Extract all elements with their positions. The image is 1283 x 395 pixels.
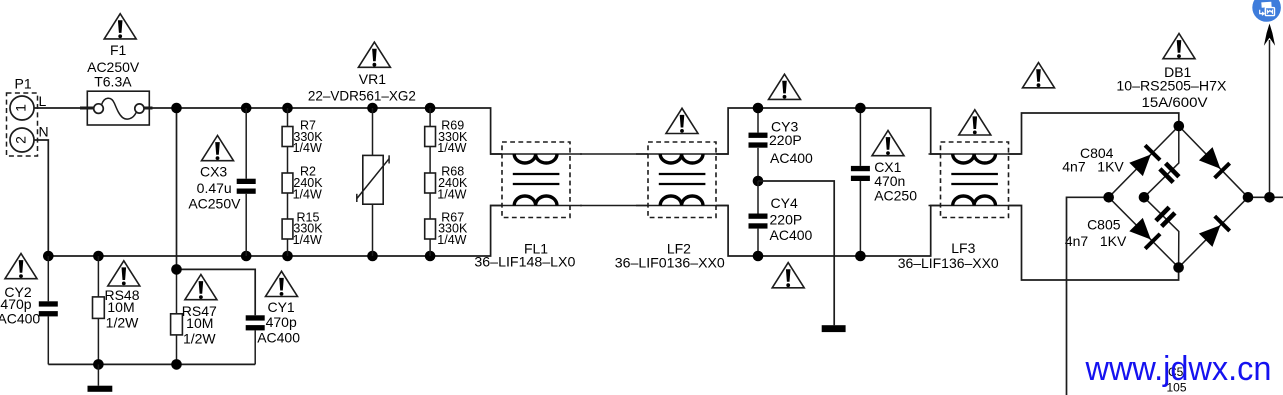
resistor RS48 [93, 256, 140, 364]
junction N rail R15 [282, 251, 293, 262]
junction gnd rail RS47 [171, 359, 182, 370]
svg-text:AC250V: AC250V [188, 196, 241, 212]
junction top rail R69 [425, 103, 436, 114]
connector P1 [7, 76, 49, 157]
junction N rail x48 [43, 251, 54, 262]
wire DC+ up to arrow [1269, 40, 1271, 197]
ground (left) [88, 364, 113, 391]
ground (middle) [822, 325, 846, 332]
wire midpoint to ground [758, 181, 834, 325]
svg-text:1/4W: 1/4W [293, 188, 322, 202]
capacitor CY3 [749, 108, 814, 181]
wire left vertex to bottom edge [1067, 197, 1109, 395]
junction N rail CX3 [241, 251, 252, 262]
resistor R69 [425, 108, 468, 155]
svg-text:L: L [39, 93, 47, 109]
junction top rail VR1 [367, 103, 378, 114]
svg-text:10–RS2505–H7X: 10–RS2505–H7X [1116, 78, 1227, 94]
diode DB1 lower-right [1198, 215, 1231, 248]
svg-text:36–LIF0136–XX0: 36–LIF0136–XX0 [615, 255, 725, 271]
junction sub-loop x176 [171, 264, 182, 275]
varistor VR1 [308, 71, 416, 256]
svg-text:0.47u: 0.47u [197, 180, 232, 196]
svg-text:LF3: LF3 [951, 240, 975, 256]
svg-text:1/4W: 1/4W [293, 233, 322, 247]
svg-text:10M: 10M [107, 299, 134, 315]
svg-text:4n7 1KV: 4n7 1KV [1065, 233, 1127, 249]
wire ground rail (bottom left) [48, 363, 255, 365]
resistor RS47 [171, 269, 217, 364]
diode DB1 lower-left [1129, 217, 1162, 250]
svg-text:1/2W: 1/2W [183, 331, 216, 347]
junction bridge center node [1139, 192, 1150, 203]
warning triangle (LF3) [959, 110, 991, 135]
resistor R2 [282, 147, 323, 202]
junction bridge top vertex [1174, 121, 1185, 132]
svg-text:22–VDR561–XG2: 22–VDR561–XG2 [308, 88, 416, 104]
junction N rail R67 [425, 251, 436, 262]
svg-text:T6.3A: T6.3A [94, 73, 132, 89]
warning triangle (CY4) [772, 263, 804, 288]
warning triangle (F1) [104, 14, 136, 39]
svg-text:CX3: CX3 [200, 164, 227, 180]
junction bridge left vertex [1103, 192, 1114, 203]
junction CY3 top [753, 103, 764, 114]
wire LF2 to CY3 section (lower) [716, 206, 941, 257]
warning triangle (RS48) [108, 261, 140, 286]
svg-text:1/4W: 1/4W [437, 233, 466, 247]
diode DB1 upper-right [1198, 146, 1231, 179]
resistor R7 [282, 108, 323, 155]
junction gnd rail RS48 [93, 359, 104, 370]
wire N rail: left section [48, 206, 502, 257]
wire L: P1 pin1 to fuse F1 [34, 107, 94, 109]
capacitor CX1 [851, 108, 917, 256]
svg-text:1/2W: 1/2W [106, 315, 139, 331]
warning triangle (CY3) [769, 74, 801, 99]
resistor R15 [282, 193, 323, 256]
junction bridge bottom vertex [1173, 262, 1184, 273]
warning triangle (CX3) [202, 136, 234, 161]
wire right vertex to right edge [1248, 196, 1283, 198]
svg-text:220P: 220P [769, 132, 802, 148]
junction CX1 top [855, 103, 866, 114]
svg-text:www.jdwx.cn: www.jdwx.cn [1085, 350, 1272, 388]
junction N rail VR1 [367, 251, 378, 262]
arrow off-page (DC+) [1264, 24, 1275, 46]
warning triangle (VR1) [358, 42, 390, 67]
svg-text:C805: C805 [1087, 217, 1121, 233]
capacitor CX3 [188, 108, 255, 256]
svg-text:AC250: AC250 [874, 187, 917, 203]
capacitor C804 [1062, 126, 1180, 197]
browser overlay icon (blue circle) [1252, 0, 1281, 22]
warning triangle (RS47) [185, 275, 217, 300]
svg-text:AC400: AC400 [0, 311, 40, 327]
junction bridge right vertex [1243, 192, 1254, 203]
svg-text:AC400: AC400 [257, 330, 300, 346]
capacitor C805 [1065, 197, 1179, 267]
warning triangle (CY2) [5, 254, 37, 279]
junction CY4 bottom [753, 251, 764, 262]
warning triangle (left of DB1) [1023, 63, 1055, 88]
junction CX1 bottom [855, 251, 866, 262]
diode DB1 upper-left [1129, 144, 1162, 177]
resistor R68 [425, 147, 468, 202]
svg-text:10M: 10M [186, 315, 213, 331]
wire sub-loop rail [177, 269, 256, 315]
svg-text:P1: P1 [15, 76, 32, 92]
svg-text:AC400: AC400 [770, 227, 813, 243]
warning triangle (LF2) [666, 108, 698, 133]
junction top rail R7 [282, 103, 293, 114]
wire top rail: fuse to FL1 [144, 108, 502, 154]
svg-text:1/4W: 1/4W [437, 188, 466, 202]
junction top rail CX3 [241, 103, 252, 114]
wire LF3 to bridge (upper) [1009, 113, 1179, 154]
svg-text:CY1: CY1 [267, 299, 294, 315]
svg-text:1/4W: 1/4W [293, 141, 322, 155]
svg-text:220P: 220P [770, 211, 803, 227]
svg-text:AC400: AC400 [770, 150, 813, 166]
junction N rail RS48 [93, 251, 104, 262]
svg-text:2: 2 [13, 136, 29, 144]
fuse F1 [80, 42, 153, 125]
warning triangle (CY1) [266, 271, 298, 296]
capacitor CY4 [749, 181, 813, 256]
svg-text:4n7 1KV: 4n7 1KV [1062, 159, 1124, 175]
common-mode filter LF3 [898, 142, 1021, 271]
junction top rail x176 [171, 103, 182, 114]
wire FL1 to LF2 (lower) [580, 205, 648, 207]
junction DC+ arrow [1264, 192, 1275, 203]
wire FL1 to LF2 (upper) [580, 153, 648, 155]
wire LF3 to bridge (lower) [1009, 206, 1179, 281]
resistor R67 [425, 193, 468, 256]
svg-text:36–LIF136–XX0: 36–LIF136–XX0 [898, 255, 999, 271]
svg-text:CY4: CY4 [771, 195, 798, 211]
svg-text:15A/600V: 15A/600V [1142, 94, 1209, 110]
svg-text:470p: 470p [266, 314, 297, 330]
wire N: P1 pin2 down to N rail [34, 140, 48, 256]
warning triangle (DB1) [1163, 34, 1195, 59]
bridge rectifier DB1 [1109, 64, 1248, 268]
common-mode filter FL1 [474, 142, 582, 270]
junction CY3/CY4 midpoint [753, 176, 764, 187]
wire L drop to RS47/CY1 loop [176, 108, 178, 269]
svg-text:1/4W: 1/4W [437, 141, 466, 155]
common-mode filter LF2 [615, 142, 728, 271]
capacitor CY2 [0, 256, 58, 364]
capacitor CY1 [246, 299, 301, 364]
wire LF2 to CY3 section (upper) [716, 108, 941, 154]
svg-text:1: 1 [13, 104, 29, 112]
svg-text:36–LIF148–LX0: 36–LIF148–LX0 [474, 254, 575, 270]
svg-text:VR1: VR1 [359, 71, 386, 87]
warning triangle (CX1) [872, 131, 904, 156]
svg-text:F1: F1 [110, 42, 127, 58]
svg-text:N: N [39, 124, 49, 140]
